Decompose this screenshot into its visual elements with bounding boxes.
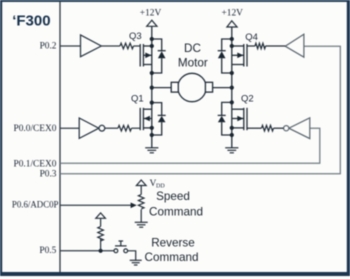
svg-text:‘F300: ‘F300: [12, 12, 50, 29]
svg-text:Command: Command: [149, 206, 203, 219]
svg-text:Motor: Motor: [178, 56, 208, 69]
svg-text:Speed: Speed: [156, 190, 190, 203]
svg-text:Q4: Q4: [245, 32, 258, 43]
svg-text:DD: DD: [156, 184, 165, 190]
svg-text:P0.6/ADC0P: P0.6/ADC0P: [12, 199, 59, 209]
svg-text:+12V: +12V: [140, 8, 162, 18]
svg-text:Q3: Q3: [129, 31, 142, 42]
svg-text:P0.2: P0.2: [40, 41, 57, 51]
svg-text:P0.1/CEX0: P0.1/CEX0: [14, 159, 57, 169]
svg-text:P0.5: P0.5: [39, 246, 56, 256]
svg-text:P0.3: P0.3: [40, 169, 57, 179]
svg-text:Q1: Q1: [131, 93, 144, 104]
svg-text:+12V: +12V: [221, 9, 243, 19]
svg-text:Command: Command: [145, 251, 199, 264]
svg-text:Q2: Q2: [241, 94, 254, 105]
svg-text:DC: DC: [184, 42, 201, 55]
svg-text:Reverse: Reverse: [151, 236, 195, 249]
svg-text:P0.0/CEX0: P0.0/CEX0: [14, 124, 57, 134]
